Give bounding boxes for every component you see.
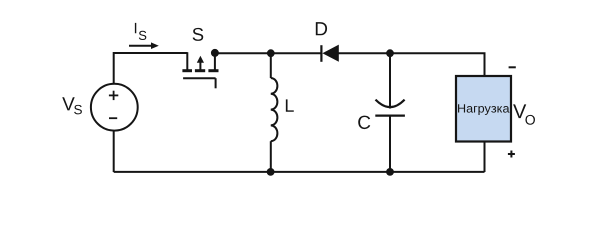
inductor L1 coil bbox=[271, 78, 278, 141]
junction dot at inductor top node bbox=[267, 49, 275, 57]
mosfet left (drain) stub bbox=[186, 52, 188, 69]
svg-text:L: L bbox=[284, 96, 294, 116]
junction dot at capacitor top node bbox=[386, 49, 394, 57]
svg-text:S: S bbox=[74, 102, 83, 117]
svg-text:S: S bbox=[192, 24, 204, 45]
wire top-right rail into load bbox=[389, 53, 485, 75]
junction dot at capacitor bottom node bbox=[386, 168, 394, 176]
wire diode to capacitor node bbox=[339, 52, 392, 54]
mosfet gate lead bbox=[215, 78, 217, 88]
voltage source plus sign bbox=[109, 91, 118, 100]
svg-text:I: I bbox=[133, 20, 137, 37]
wire top-left rail from source to switch bbox=[114, 53, 188, 84]
capacitor C top curved plate bbox=[376, 100, 405, 108]
IS current arrow bbox=[129, 45, 152, 47]
svg-text:O: O bbox=[525, 112, 536, 128]
diode D triangle bbox=[322, 45, 338, 62]
svg-text:D: D bbox=[314, 19, 328, 40]
load box (Нагрузка) bbox=[456, 76, 511, 142]
wire inductor bottom lead bbox=[270, 141, 272, 172]
junction dot at switch output node bbox=[211, 49, 219, 57]
transistor S (MOSFET switch) bbox=[182, 52, 218, 88]
wire load bottom lead bbox=[484, 142, 486, 173]
mosfet gate bar bbox=[183, 77, 216, 79]
wire source bottom lead bbox=[113, 131, 115, 172]
mosfet channel bars bbox=[182, 69, 192, 72]
output minus sign bbox=[509, 66, 516, 68]
wire capacitor bottom lead bbox=[389, 116, 391, 172]
voltage source minus sign bbox=[109, 117, 117, 119]
junction dot at inductor bottom node bbox=[267, 168, 275, 176]
wire inductor top lead bbox=[270, 53, 272, 78]
output plus sign bbox=[508, 151, 515, 158]
mosfet body arrow head bbox=[197, 56, 204, 63]
diode D cathode bar bbox=[320, 45, 322, 62]
voltage source VS circle bbox=[91, 84, 138, 131]
svg-text:C: C bbox=[357, 113, 371, 134]
wire bottom rail bbox=[114, 171, 485, 173]
mosfet body arrow shaft bbox=[199, 62, 201, 71]
wire switch to diode bbox=[213, 52, 321, 54]
mosfet right (source) stub bbox=[214, 53, 216, 71]
svg-text:Нагрузка: Нагрузка bbox=[457, 101, 510, 115]
svg-text:S: S bbox=[138, 28, 147, 43]
wire capacitor top lead bbox=[389, 53, 391, 108]
capacitor C bottom straight plate bbox=[375, 114, 405, 116]
